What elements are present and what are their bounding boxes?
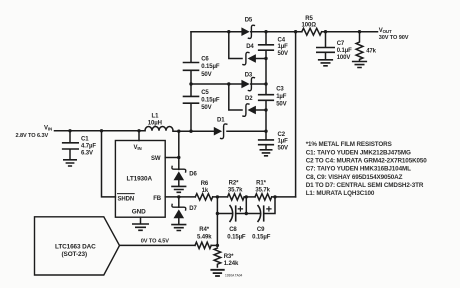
svg-text:4.7µF: 4.7µF [81, 144, 96, 150]
svg-text:C7: C7 [337, 41, 345, 47]
node junction C7 [324, 30, 327, 33]
svg-text:47k: 47k [366, 49, 376, 55]
svg-text:50V: 50V [201, 105, 211, 111]
wire SW node rail [173, 130, 266, 132]
wire FB sense vertical [295, 32, 297, 197]
capacitor C5 [184, 90, 220, 111]
svg-text:L1: MURATA LQH3C100: L1: MURATA LQH3C100 [306, 190, 375, 197]
svg-text:D1 TO D7: CENTRAL SEMI CMDSH2-: D1 TO D7: CENTRAL SEMI CMDSH2-3TR [306, 182, 424, 189]
svg-text:100V: 100V [337, 55, 351, 61]
wire U1 SW pin [165, 157, 179, 159]
svg-text:50V: 50V [201, 72, 211, 78]
svg-text:1µF: 1µF [276, 94, 287, 100]
svg-text:C6: C6 [201, 56, 209, 62]
node watermark [225, 274, 242, 278]
svg-text:50V: 50V [278, 51, 288, 57]
svg-text:GND: GND [132, 209, 146, 216]
diode D5 [241, 18, 254, 39]
svg-text:1930A TA04: 1930A TA04 [225, 274, 242, 278]
resistor R5 100ohm [302, 16, 322, 35]
svg-text:C2 TO C4: MURATA GRM42-2X7R105: C2 TO C4: MURATA GRM42-2X7R105K050 [306, 158, 428, 165]
svg-text:*1% METAL FILM RESISTORS: *1% METAL FILM RESISTORS [306, 141, 392, 148]
svg-text:0.15µF: 0.15µF [201, 64, 220, 70]
node junction C6-C5 [189, 82, 192, 85]
node junction U1 VIN [137, 129, 140, 132]
wire U1 GND pin [140, 217, 142, 223]
ground (C7) [319, 60, 333, 66]
diode D2 [243, 96, 266, 116]
svg-text:2.8V TO 6.3V: 2.8V TO 6.3V [16, 133, 49, 139]
svg-text:VIN: VIN [44, 126, 52, 132]
capacitor C1 [63, 131, 97, 160]
wire DAC output [120, 244, 196, 246]
node junction D1-C2 [264, 130, 267, 133]
ground (D7) [172, 225, 186, 231]
svg-text:D4: D4 [246, 44, 254, 50]
diode D4 [243, 44, 266, 65]
svg-text:SW: SW [151, 156, 161, 162]
wire SW to D6 [178, 158, 180, 170]
inductor L1 10uH [145, 114, 173, 131]
wire FB node drop [216, 197, 218, 246]
wire U1 VIN pin [138, 131, 140, 141]
ground (U1 GND) [133, 224, 148, 230]
svg-text:C8: C8 [229, 227, 237, 233]
op-amp U1 LT1930A [115, 141, 165, 218]
capacitor C7 [317, 32, 352, 61]
svg-text:LT1930A: LT1930A [127, 176, 153, 183]
node junction FB divider [216, 195, 219, 198]
capacitor C4 [259, 37, 288, 57]
svg-text:VIN: VIN [134, 145, 142, 151]
wire U1 FB pin [165, 196, 195, 198]
svg-text:C1: C1 [81, 137, 89, 143]
ground (C2) [260, 150, 271, 156]
svg-text:R3*: R3* [224, 254, 234, 260]
svg-text:C7: TAIYO YUDEN HMK316BJ104ML: C7: TAIYO YUDEN HMK316BJ104ML [306, 166, 411, 173]
svg-text:1µF: 1µF [278, 44, 289, 50]
node junction C5 bottom [189, 130, 192, 133]
svg-text:1µF: 1µF [278, 139, 289, 145]
wire top rail [191, 31, 378, 33]
svg-text:50V: 50V [278, 146, 288, 152]
wire R1 to sense [272, 196, 296, 198]
wire SW drop [178, 131, 180, 157]
node junction sense top [294, 30, 297, 33]
svg-text:C4: C4 [278, 37, 286, 43]
svg-text:1k: 1k [202, 188, 209, 194]
svg-text:0V TO 4.5V: 0V TO 4.5V [141, 238, 169, 244]
node junction C1 [68, 129, 71, 132]
svg-text:D2: D2 [245, 96, 253, 102]
svg-text:D5: D5 [245, 18, 253, 24]
diode D7 [172, 204, 198, 224]
wire D3 row [191, 83, 266, 85]
node junction 47k [358, 30, 361, 33]
resistor R1 35.7k [255, 180, 272, 200]
resistor 47k load [356, 32, 377, 61]
capacitor C8 [227, 206, 246, 241]
diode D3 [241, 73, 254, 91]
svg-text:C9: C9 [257, 227, 265, 233]
node junction D4 branch [227, 30, 230, 33]
wire SHDN tie [102, 131, 116, 197]
svg-text:R1*: R1* [256, 180, 266, 186]
ground (C1) [64, 160, 76, 166]
diode D1 [214, 118, 227, 139]
wire FB to D7 [178, 197, 180, 207]
svg-text:C3: C3 [276, 86, 284, 92]
wire VIN rail [55, 130, 146, 132]
svg-text:10µH: 10µH [148, 120, 162, 126]
svg-text:D3: D3 [245, 73, 253, 79]
svg-text:D7: D7 [189, 206, 197, 212]
resistor R4 5.49k [195, 227, 212, 249]
svg-text:R4*: R4* [199, 227, 209, 233]
node junction D2 branch [227, 82, 230, 85]
svg-text:6.3V: 6.3V [81, 150, 93, 156]
DAC U2 LTC1663 [35, 217, 120, 275]
node junction C3 top [264, 82, 267, 85]
resistor R3 1.24k [214, 248, 239, 267]
svg-text:LTC1663 DAC: LTC1663 DAC [55, 244, 96, 251]
svg-text:35.7k: 35.7k [255, 188, 270, 194]
svg-text:C8, C9: VISHAY 695D154X9050AZ: C8, C9: VISHAY 695D154X9050AZ [306, 174, 403, 181]
wire C9 right [264, 197, 275, 214]
capacitor C3 [259, 86, 287, 107]
svg-text:R2*: R2* [229, 180, 239, 186]
svg-text:FB: FB [153, 196, 162, 202]
diode D6 [172, 166, 198, 186]
svg-text:D6: D6 [189, 171, 197, 177]
svg-text:0.15µF: 0.15µF [227, 234, 246, 240]
node junction SHDN tie [100, 129, 103, 132]
svg-text:0.15µF: 0.15µF [201, 97, 220, 103]
node notes text [306, 141, 428, 197]
wire C8 row [217, 213, 232, 215]
node VIN input label [16, 126, 53, 139]
node junction C4 top [264, 30, 267, 33]
svg-text:D1: D1 [217, 118, 225, 124]
svg-text:30V TO 90V: 30V TO 90V [379, 35, 409, 41]
svg-text:C1: TAIYO YUDEN JMK212BJ475MG: C1: TAIYO YUDEN JMK212BJ475MG [306, 149, 411, 156]
wire left pump column [190, 32, 192, 132]
resistor R6 1k [195, 181, 212, 200]
ground (D6) [172, 186, 186, 192]
wire D2 branch [229, 84, 242, 110]
capacitor C6 [184, 56, 220, 78]
svg-text:R5: R5 [305, 16, 313, 22]
wire right pump column [265, 32, 267, 140]
svg-text:0.1µF: 0.1µF [337, 48, 352, 54]
capacitor C2 [259, 132, 288, 152]
capacitor C9 [252, 206, 271, 241]
svg-text:0.15µF: 0.15µF [252, 234, 271, 240]
node junction C3 bottom [264, 108, 267, 111]
wire R6 to node [213, 196, 228, 198]
node VOUT label [379, 28, 409, 41]
svg-text:35.7k: 35.7k [228, 188, 243, 194]
svg-text:C5: C5 [201, 90, 209, 96]
svg-text:C2: C2 [278, 132, 286, 138]
wire R2-R1 [244, 196, 255, 198]
svg-text:R6: R6 [201, 181, 209, 187]
wire D4 branch [229, 32, 242, 59]
ground (47k) [353, 62, 367, 68]
svg-text:100Ω: 100Ω [302, 23, 317, 29]
svg-text:(SOT-23): (SOT-23) [62, 251, 87, 258]
svg-text:1.24k: 1.24k [224, 261, 239, 267]
svg-text:SHDN: SHDN [118, 197, 135, 203]
svg-text:50V: 50V [276, 101, 286, 107]
svg-text:VOUT: VOUT [379, 28, 392, 34]
svg-text:L1: L1 [152, 114, 160, 120]
resistor R2 35.7k [228, 180, 245, 200]
svg-text:5.49k: 5.49k [197, 234, 212, 240]
node junction C4 bottom [264, 57, 267, 60]
wire R4 to node [211, 244, 217, 246]
wire C8-C9 [236, 197, 247, 214]
ground (R3) [211, 270, 224, 276]
node junction SW drop [177, 130, 180, 133]
